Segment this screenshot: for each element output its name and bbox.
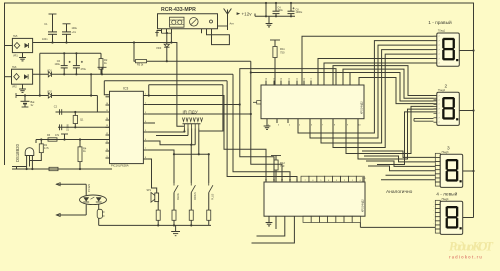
svg-text:IC3: IC3 (123, 87, 128, 91)
svg-text:RCR-433-MPR: RCR-433-MPR (161, 7, 196, 13)
svg-text:100u: 100u (54, 63, 60, 66)
svg-text:7: 7 (439, 109, 440, 111)
svg-text:7: 7 (439, 118, 440, 120)
svg-text:4 - левый: 4 - левый (436, 190, 457, 197)
svg-text:HL5: HL5 (13, 35, 18, 38)
svg-text:470u: 470u (81, 68, 87, 71)
svg-text:7: 7 (439, 54, 440, 56)
svg-text:MINUS: MINUS (194, 192, 197, 200)
svg-text:VD3: VD3 (156, 46, 162, 50)
svg-text:7: 7 (439, 45, 440, 47)
svg-text:7: 7 (439, 58, 440, 60)
svg-text:PIC16LF628A: PIC16LF628A (111, 164, 129, 168)
svg-text:2: 2 (445, 84, 448, 90)
svg-text:Аналогично: Аналогично (386, 189, 413, 195)
svg-text:VD1: VD1 (47, 70, 52, 73)
svg-text:КР514ИД2: КР514ИД2 (361, 199, 365, 212)
svg-text:+12v: +12v (242, 11, 253, 16)
svg-text:VR1: VR1 (13, 55, 18, 58)
svg-text:VD2: VD2 (47, 91, 52, 94)
svg-text:3: 3 (447, 146, 450, 152)
svg-text:1000u: 1000u (296, 11, 303, 14)
svg-text:7Seg4: 7Seg4 (441, 198, 449, 201)
svg-text:7: 7 (439, 36, 440, 38)
svg-text:100n: 100n (42, 38, 48, 41)
svg-text:VR2: VR2 (12, 86, 17, 89)
svg-text:PC123: PC123 (87, 184, 91, 192)
svg-text:DS18B20: DS18B20 (15, 143, 20, 162)
svg-text:КР514ИД2: КР514ИД2 (360, 101, 364, 114)
svg-text:7: 7 (439, 113, 440, 115)
svg-text:MENU: MENU (177, 193, 180, 200)
svg-text:4.7k: 4.7k (44, 147, 49, 150)
svg-text:7: 7 (439, 63, 440, 65)
svg-text:220u: 220u (278, 9, 284, 12)
svg-text:7Seg1: 7Seg1 (438, 30, 446, 33)
svg-text:+Cx: +Cx (72, 31, 77, 34)
svg-text:radiokot.ru: radiokot.ru (449, 255, 483, 260)
svg-text:7: 7 (439, 122, 440, 124)
svg-text:PLUS: PLUS (212, 193, 215, 200)
svg-text:7: 7 (439, 100, 440, 102)
svg-text:1 - правый: 1 - правый (428, 19, 452, 26)
svg-text:R11: R11 (280, 47, 285, 51)
svg-text:РадиоКОТ: РадиоКОТ (449, 240, 494, 254)
svg-text:750: 750 (280, 51, 285, 55)
svg-text:7: 7 (439, 41, 440, 43)
svg-text:7: 7 (439, 50, 440, 52)
svg-text:SP1: SP1 (147, 189, 152, 192)
svg-text:750: 750 (280, 164, 285, 168)
svg-text:32768: 32768 (67, 124, 70, 131)
svg-text:R5 1k: R5 1k (137, 64, 144, 67)
svg-text:7: 7 (439, 104, 440, 106)
svg-text:100u: 100u (72, 27, 78, 30)
svg-text:HL6: HL6 (12, 66, 17, 69)
svg-text:7: 7 (439, 95, 440, 97)
